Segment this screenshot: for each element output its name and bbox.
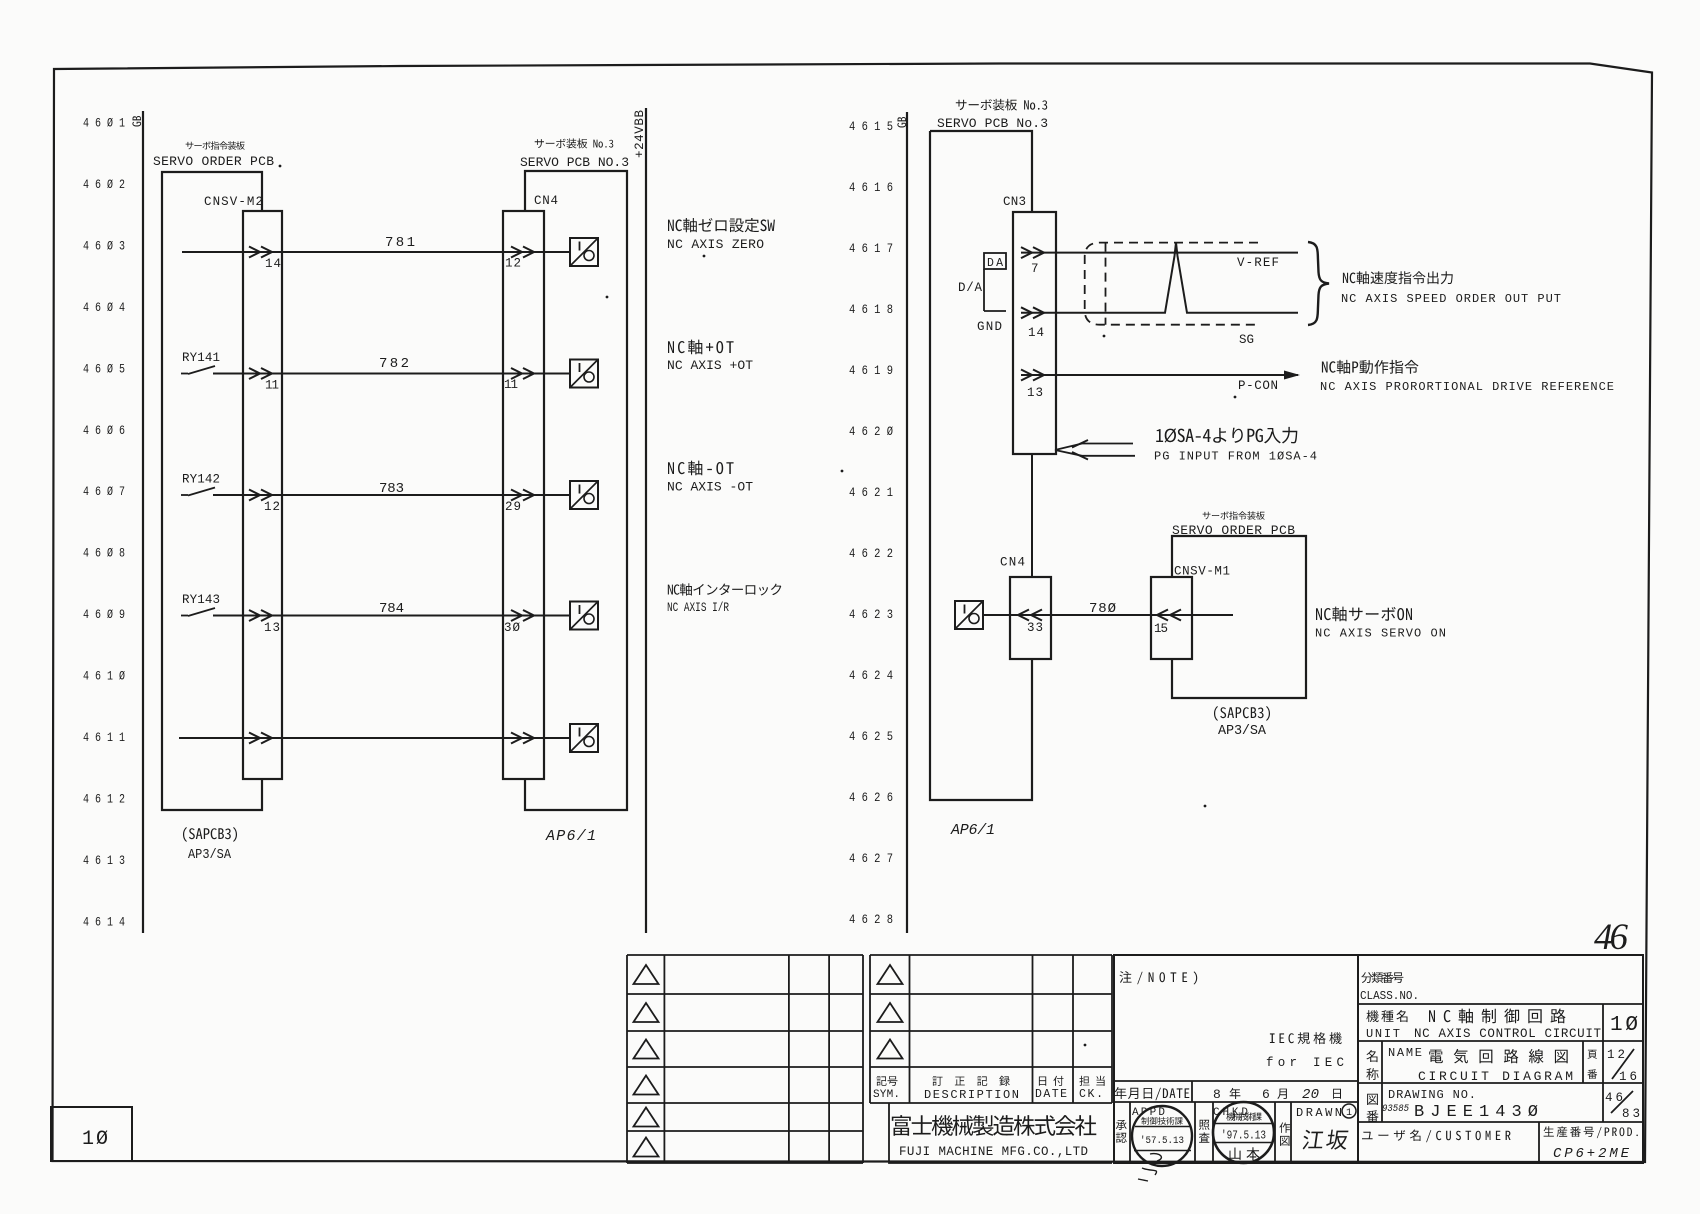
PG input arrow lower	[1055, 450, 1135, 456]
I/O symbol rung 4611	[570, 724, 598, 752]
svg-text:1Ø: 1Ø	[1610, 1014, 1638, 1037]
svg-text:83: 83	[1622, 1107, 1640, 1121]
label servo pcb no.3 (jp)	[535, 138, 614, 148]
company name cell	[889, 1103, 1112, 1163]
wire 782 (NC AXIS +OT)	[213, 373, 570, 375]
svg-text:12: 12	[264, 500, 280, 514]
label ban	[1367, 1110, 1379, 1122]
contact blade RY141	[181, 373, 188, 375]
name row	[1381, 1041, 1383, 1083]
svg-text:4 6 1 3: 4 6 1 3	[83, 853, 125, 868]
right rail label GB	[897, 117, 906, 128]
connector CN3	[1013, 212, 1056, 454]
header description (jp)	[932, 1076, 1009, 1086]
svg-text:782: 782	[379, 356, 409, 372]
svg-text:FUJI MACHINE MFG.CO.,LTD: FUJI MACHINE MFG.CO.,LTD	[899, 1145, 1088, 1159]
svg-text:PG INPUT FROM 1ØSA-4: PG INPUT FROM 1ØSA-4	[1154, 450, 1317, 464]
stamp2 dept	[1226, 1112, 1261, 1120]
arrow into CNSV-M2 spare	[249, 733, 260, 744]
label prod	[1544, 1126, 1638, 1138]
arrow out of CNSV-M1 pin 15	[1157, 610, 1168, 621]
svg-text:33: 33	[1027, 621, 1043, 635]
svg-text:NC AXIS -OT: NC AXIS -OT	[667, 480, 753, 495]
svg-text:CN4: CN4	[1000, 556, 1025, 570]
connector CNSV-M1	[1151, 577, 1192, 659]
stamp1 signature scribble	[1138, 1154, 1161, 1181]
svg-text:4 6 Ø 1: 4 6 Ø 1	[83, 116, 125, 131]
revision triangle L3	[634, 1040, 659, 1059]
svg-text:4 6 2 1: 4 6 2 1	[849, 485, 893, 500]
svg-text:78Ø: 78Ø	[1089, 601, 1116, 617]
label page col2	[1587, 1069, 1597, 1079]
signal label NC axis speed order output (jp)	[1343, 271, 1453, 284]
svg-text:DRAWING NO.: DRAWING NO.	[1388, 1088, 1476, 1102]
PG input arrow upper	[1055, 444, 1133, 451]
revision triangle L1	[634, 965, 659, 984]
svg-text:4 6 2 2: 4 6 2 2	[849, 546, 893, 561]
svg-text:20: 20	[1302, 1087, 1319, 1103]
svg-text:93585: 93585	[1382, 1104, 1409, 1115]
svg-text:4 6 2 Ø: 4 6 2 Ø	[849, 424, 893, 439]
svg-text:4 6 Ø 3: 4 6 Ø 3	[83, 238, 125, 253]
revision triangle R2	[878, 1003, 903, 1022]
label (SAPCB3)	[183, 827, 237, 842]
label servo order pcb right (jp)	[1203, 511, 1265, 520]
svg-text:GND: GND	[977, 320, 1002, 334]
contact blade RY143	[181, 615, 188, 617]
label date row	[1115, 1087, 1190, 1100]
svg-text:SG: SG	[1239, 333, 1254, 347]
svg-text:NC AXIS SPEED ORDER OUT PUT: NC AXIS SPEED ORDER OUT PUT	[1341, 292, 1561, 306]
label shou	[1366, 1068, 1378, 1080]
I/O symbol rung 4605	[570, 360, 598, 388]
svg-text:14: 14	[265, 257, 281, 271]
svg-text:NAME: NAME	[1388, 1046, 1422, 1060]
svg-text:4 6 2 5: 4 6 2 5	[849, 729, 893, 744]
svg-text:NC AXIS CONTROL CIRCUIT: NC AXIS CONTROL CIRCUIT	[1414, 1027, 1601, 1041]
svg-text:NC AXIS +OT: NC AXIS +OT	[667, 358, 753, 373]
header date (jp)	[1039, 1076, 1064, 1086]
wire P-CON from CN3 pin 13	[1021, 374, 1298, 376]
label mei	[1366, 1050, 1377, 1062]
customer row	[1538, 1122, 1540, 1163]
svg-text:46: 46	[1594, 917, 1629, 958]
svg-text:4 6 2 4: 4 6 2 4	[849, 668, 893, 683]
revision triangle L2	[634, 1003, 659, 1022]
svg-text:4 6 1 1: 4 6 1 1	[83, 730, 125, 745]
stamp row	[1114, 1101, 1358, 1103]
label kishu-mei	[1366, 1010, 1407, 1022]
PCB AP6/1 (SERVO PCB No.3) right outline	[930, 131, 1032, 212]
date hi	[1333, 1089, 1341, 1099]
arrow into CN4 pin 12	[511, 247, 522, 258]
svg-text:'97.5.13: '97.5.13	[1221, 1130, 1266, 1143]
svg-text:4 6 Ø 9: 4 6 Ø 9	[83, 607, 125, 622]
svg-text:4 6 1 Ø: 4 6 1 Ø	[83, 669, 125, 684]
svg-text:4 6 Ø 2: 4 6 Ø 2	[83, 177, 125, 192]
svg-text:'57.5.13: '57.5.13	[1140, 1135, 1184, 1147]
arrow into CN4 pin 11	[511, 368, 522, 379]
revision table 2	[870, 954, 1112, 956]
svg-text:783: 783	[379, 481, 404, 497]
date tsuki	[1277, 1089, 1287, 1099]
date nen	[1230, 1088, 1241, 1099]
svg-text:CN4: CN4	[534, 194, 558, 208]
svg-text:29: 29	[505, 500, 521, 514]
wire 780 (NC AXIS SERVO ON)	[983, 614, 1233, 616]
svg-text:CK.: CK.	[1079, 1088, 1103, 1101]
stamp2 name	[1230, 1147, 1260, 1160]
label page col1	[1588, 1050, 1598, 1059]
signal label NC axis -OT (jp)	[668, 461, 734, 476]
svg-text:15: 15	[1154, 622, 1168, 636]
label sakuzu2	[1280, 1136, 1290, 1146]
IEC label (jp)	[1270, 1032, 1342, 1044]
company name kanji	[892, 1115, 1097, 1136]
svg-text:1Ø: 1Ø	[82, 1128, 108, 1151]
connector CNSV-M2	[243, 211, 282, 779]
svg-text:SERVO ORDER PCB: SERVO ORDER PCB	[1172, 523, 1295, 538]
connector CN4 right circuit	[1010, 577, 1051, 659]
svg-text:4 6 1 5: 4 6 1 5	[849, 119, 893, 134]
arrow CN3 pin 7	[1021, 247, 1032, 258]
svg-text:NC AXIS I/R: NC AXIS I/R	[667, 600, 729, 615]
D/A converter block	[984, 253, 1006, 269]
signal label NC axis interlock (jp)	[668, 583, 782, 595]
note label	[1120, 971, 1198, 984]
svg-text:AP6/1: AP6/1	[950, 822, 995, 839]
svg-text:AP3/SA: AP3/SA	[1218, 724, 1267, 739]
connector CN4	[503, 211, 544, 779]
svg-text:11: 11	[504, 378, 518, 392]
label servo order pcb (jp)	[186, 141, 245, 150]
svg-text:4 6 2 6: 4 6 2 6	[849, 790, 893, 805]
svg-text:784: 784	[379, 601, 404, 617]
wire 784 (NC AXIS I/R)	[213, 615, 570, 617]
svg-text:DA: DA	[987, 257, 1003, 270]
power rail +24VBB	[645, 108, 647, 933]
date row	[1114, 1080, 1358, 1082]
svg-text:NC AXIS SERVO ON: NC AXIS SERVO ON	[1315, 627, 1446, 641]
signal label NC axis +OT (jp)	[668, 340, 734, 355]
svg-text:P-CON: P-CON	[1238, 379, 1278, 393]
svg-text:SERVO PCB No.3: SERVO PCB No.3	[937, 116, 1048, 131]
svg-text:4 6 2 8: 4 6 2 8	[849, 912, 893, 927]
arrow CN3 pin 13	[1021, 370, 1032, 381]
wire SG from CN3 pin 14 with twisted-pair crossover	[1021, 243, 1298, 313]
wire 783 (NC AXIS -OT)	[213, 494, 570, 496]
revision triangle L5	[634, 1108, 659, 1127]
svg-text:CIRCUIT DIAGRAM: CIRCUIT DIAGRAM	[1418, 1069, 1573, 1084]
revision triangle L6	[634, 1138, 659, 1157]
sheet number box bottom left	[51, 1107, 132, 1161]
svg-text:4 6 Ø 6: 4 6 Ø 6	[83, 423, 125, 438]
header sym (jp)	[876, 1076, 897, 1086]
arrow into CNSV-M2 pin 14	[249, 247, 260, 258]
svg-text:D/A: D/A	[958, 281, 982, 295]
arrow into CNSV-M2 pin 11	[249, 368, 260, 379]
contact blade RY142	[181, 494, 188, 496]
svg-text:13: 13	[264, 621, 280, 635]
svg-text:RY141: RY141	[182, 351, 220, 365]
svg-text:RY142: RY142	[182, 473, 220, 487]
arrow into CN4 pin 29	[511, 490, 522, 501]
svg-text:3Ø: 3Ø	[504, 621, 520, 635]
label sakuzu	[1279, 1122, 1290, 1133]
label zu	[1367, 1094, 1378, 1105]
svg-text:SYM.: SYM.	[873, 1089, 900, 1101]
wire V-REF from CN3 pin 7	[1021, 252, 1298, 254]
check stamp circle	[1213, 1102, 1274, 1163]
revision triangle L4	[634, 1076, 659, 1095]
spare wire rung 4611	[179, 737, 570, 739]
arrowhead P-CON	[1284, 371, 1300, 380]
name circuit diagram (jp)	[1429, 1049, 1568, 1064]
cable shield dashed outline	[1085, 243, 1258, 325]
label shonin2	[1116, 1133, 1127, 1143]
svg-text:4 6 1 7: 4 6 1 7	[849, 241, 893, 256]
svg-text:DESCRIPTION: DESCRIPTION	[924, 1088, 1019, 1102]
svg-text:4 6 1 2: 4 6 1 2	[83, 791, 125, 806]
PCB SERVO ORDER PCB right outline	[1172, 536, 1306, 698]
svg-text:4 6 1 6: 4 6 1 6	[849, 180, 893, 195]
svg-text:for IEC: for IEC	[1266, 1056, 1344, 1070]
svg-text:781: 781	[385, 235, 415, 251]
svg-text:7: 7	[1031, 262, 1039, 276]
signal label NC axis zero (jp)	[668, 218, 775, 232]
svg-text:RY143: RY143	[182, 593, 220, 607]
title block right section	[1358, 955, 1643, 1163]
label PG input (jp)	[1156, 427, 1297, 444]
svg-text:4 6 1 8: 4 6 1 8	[849, 302, 893, 317]
label customer	[1362, 1130, 1511, 1143]
revision table left	[627, 954, 863, 956]
I/O symbol rung 4603	[570, 238, 598, 266]
label shousa2	[1199, 1132, 1210, 1142]
revision triangle R1	[878, 965, 903, 984]
approval stamp circle	[1132, 1106, 1192, 1166]
arrow into CN4 spare	[511, 733, 522, 744]
svg-text:4 6 Ø 7: 4 6 Ø 7	[83, 484, 125, 499]
unit row	[1602, 1004, 1604, 1041]
svg-text:V-REF: V-REF	[1237, 256, 1279, 270]
PCB right edge segment between CN3 and CN4	[1031, 454, 1033, 577]
I/O symbol rung 4607	[570, 481, 598, 509]
svg-text:AP3/SA: AP3/SA	[188, 848, 232, 863]
svg-text:+24VBB: +24VBB	[633, 110, 647, 158]
svg-text:12: 12	[1607, 1048, 1625, 1062]
svg-text:12: 12	[505, 257, 521, 271]
I/O symbol rung 4609	[570, 602, 598, 630]
wire 781 (NC AXIS ZERO)	[182, 251, 570, 253]
signal label NC axis servo on (jp)	[1316, 607, 1412, 622]
svg-text:DRAWN: DRAWN	[1296, 1106, 1342, 1120]
I/O symbol rung 4623	[955, 601, 983, 629]
svg-text:4 6 Ø 4: 4 6 Ø 4	[83, 300, 125, 315]
label shonin	[1116, 1120, 1127, 1130]
svg-text:4 6 Ø 8: 4 6 Ø 8	[83, 546, 125, 561]
arrow into CN4 pin 30	[511, 610, 522, 621]
left bus rail GB	[142, 111, 144, 933]
svg-text:BJEE143Ø: BJEE143Ø	[1414, 1103, 1538, 1122]
arrow into CNSV-M2 pin 13	[249, 610, 260, 621]
svg-text:SERVO ORDER PCB: SERVO ORDER PCB	[153, 154, 274, 169]
PCB AP3/SA (SERVO ORDER PCB) outline	[162, 172, 262, 810]
svg-text:13: 13	[1027, 386, 1043, 400]
label servo pcb no.3 top (jp)	[956, 99, 1047, 111]
svg-text:4 6 Ø 5: 4 6 Ø 5	[83, 361, 125, 376]
svg-text:8: 8	[1213, 1087, 1221, 1102]
label class no (jp)	[1361, 972, 1403, 983]
note block	[1114, 955, 1358, 1163]
arrow out of CN4 pin 33	[1018, 610, 1029, 621]
header ck (jp)	[1079, 1076, 1104, 1086]
svg-text:CNSV-M1: CNSV-M1	[1174, 565, 1230, 579]
brace for speed order pair	[1308, 242, 1329, 325]
drawn name handwritten	[1302, 1130, 1349, 1150]
svg-text:CLASS.NO.: CLASS.NO.	[1360, 989, 1419, 1003]
svg-text:CN3: CN3	[1003, 195, 1026, 209]
revision triangle R3	[878, 1040, 903, 1059]
left rail label GB	[132, 116, 141, 127]
label shousa	[1199, 1120, 1210, 1130]
PCB AP6/1 (SERVO PCB No.3) outline	[525, 171, 627, 810]
svg-text:NC AXIS ZERO: NC AXIS ZERO	[667, 237, 764, 252]
drawn circled 1	[1342, 1104, 1356, 1118]
svg-text:4 6 2 7: 4 6 2 7	[849, 851, 893, 866]
svg-text:4 6 2 3: 4 6 2 3	[849, 607, 893, 622]
svg-text:DATE: DATE	[1035, 1088, 1067, 1101]
svg-text:AP6/1: AP6/1	[545, 828, 596, 845]
svg-text:UNIT: UNIT	[1366, 1027, 1400, 1041]
svg-text:11: 11	[265, 379, 279, 393]
label (SAPCB3) right	[1214, 706, 1270, 721]
svg-text:1: 1	[1346, 1108, 1352, 1119]
stamp1 dept	[1141, 1117, 1183, 1125]
arrow CN3 pin 14	[1021, 307, 1032, 318]
svg-text:CNSV-M2: CNSV-M2	[204, 195, 263, 209]
right bus rail GB	[906, 112, 908, 933]
svg-text:14: 14	[1028, 326, 1044, 340]
drawing no row	[1381, 1083, 1383, 1122]
svg-text:NC AXIS PRORORTIONAL DRIVE REF: NC AXIS PRORORTIONAL DRIVE REFERENCE	[1320, 380, 1614, 394]
svg-text:4 6 1 9: 4 6 1 9	[849, 363, 893, 378]
svg-text:SERVO PCB NO.3: SERVO PCB NO.3	[520, 155, 629, 170]
unit name NC axis control circuit (jp)	[1429, 1009, 1566, 1024]
svg-text:6: 6	[1262, 1087, 1270, 1102]
signal label NC axis P drive (jp)	[1322, 360, 1419, 374]
arrow into CNSV-M2 pin 12	[249, 490, 260, 501]
svg-text:4 6 1 4: 4 6 1 4	[83, 914, 125, 929]
svg-text:CP6+2ME: CP6+2ME	[1553, 1146, 1630, 1162]
svg-text:16: 16	[1619, 1070, 1637, 1084]
